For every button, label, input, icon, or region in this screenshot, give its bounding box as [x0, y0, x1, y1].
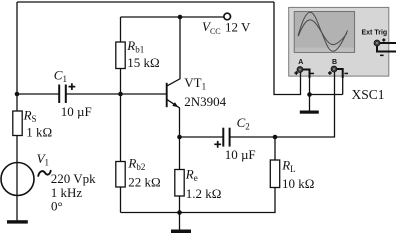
svg-text:A: A — [298, 59, 303, 66]
svg-text:XSC1: XSC1 — [352, 87, 385, 102]
svg-text:10 µF: 10 µF — [225, 147, 256, 162]
svg-text:0°: 0° — [51, 198, 63, 213]
svg-text:1.2 kΩ: 1.2 kΩ — [186, 186, 222, 201]
svg-text:1 kΩ: 1 kΩ — [26, 124, 52, 139]
svg-text:22 kΩ: 22 kΩ — [128, 175, 160, 190]
svg-text:10 kΩ: 10 kΩ — [282, 176, 314, 191]
svg-text:2N3904: 2N3904 — [184, 94, 226, 109]
svg-text:12 V: 12 V — [225, 20, 251, 35]
svg-text:Ext Trig: Ext Trig — [362, 30, 388, 37]
svg-text:10 µF: 10 µF — [61, 104, 92, 119]
svg-text:B: B — [332, 59, 337, 66]
svg-text:15 kΩ: 15 kΩ — [127, 55, 159, 70]
